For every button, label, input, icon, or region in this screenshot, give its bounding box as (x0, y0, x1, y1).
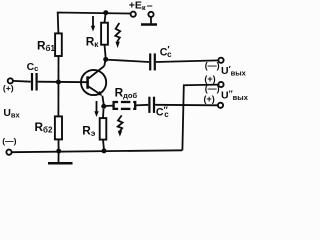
resistor Rб1 (55, 33, 62, 56)
svg-text:Uвх: Uвх (3, 108, 20, 119)
wire common to U'вых + (182, 85, 218, 151)
svg-text:(+): (+) (204, 94, 215, 104)
wire Rэ bottom lead (102, 140, 105, 149)
junction dot emitter node (101, 104, 106, 109)
svg-text:+Eк–: +Eк– (129, 0, 153, 12)
terminal input (+) (8, 78, 13, 83)
wire emitter node to Rдоб (104, 105, 114, 107)
terminal U''вых + (218, 103, 223, 108)
capacitor Cс (32, 73, 37, 91)
svg-text:C″с: C″с (156, 105, 169, 119)
junction dot Rб2 bottom (56, 149, 61, 154)
svg-text:(—): (—) (205, 61, 220, 71)
current arrow Iэ (94, 101, 98, 117)
junction dot collector node (103, 57, 108, 62)
junction dot supply node (103, 10, 108, 15)
current arrow Iк (91, 16, 95, 32)
svg-text:Rэ: Rэ (82, 123, 96, 138)
wire bottom rail (12, 150, 183, 152)
terminal U'вых + (218, 82, 223, 87)
signal zigzag arrow emitter (118, 115, 123, 136)
wire ground stub bottom (58, 152, 60, 163)
junction dot Rэ bottom (102, 148, 107, 153)
junction dot base node (56, 80, 61, 85)
ground (supply) (141, 23, 157, 26)
svg-text:C′с: C′с (160, 45, 172, 59)
svg-text:Rк: Rк (86, 35, 100, 50)
ground (bottom) (48, 162, 73, 165)
resistor Rб2 (55, 116, 62, 139)
wire emitter to node (102, 96, 103, 105)
wire input to Cс (13, 80, 31, 83)
svg-text:Rб2: Rб2 (35, 120, 53, 135)
resistor Rэ (100, 118, 107, 140)
wire Cс to base (38, 81, 87, 84)
terminal input (−) (6, 150, 11, 155)
wire −Eк to ground (150, 17, 152, 23)
capacitor C'c (150, 53, 155, 70)
svg-text:U′вых: U′вых (221, 64, 247, 78)
wire Rк bottom lead (105, 45, 106, 57)
wire Rб1-Rб2 divider (57, 56, 59, 116)
svg-text:Cс: Cс (27, 62, 39, 73)
wire collector node to C'c (106, 60, 149, 62)
wire C'c to U'вых (156, 60, 218, 62)
resistor Rдоб (dashed) (114, 102, 136, 109)
wire collector to node (104, 60, 105, 66)
capacitor C''c (149, 97, 154, 113)
svg-text:(+): (+) (3, 83, 14, 93)
terminal +Eк (131, 12, 136, 17)
wire Rб2 to bottom rail (58, 139, 60, 151)
svg-text:Rдоб: Rдоб (115, 86, 138, 101)
wire top supply rail (58, 13, 131, 34)
wire Rдоб to C''c (135, 104, 148, 107)
signal zigzag arrow collector (115, 23, 120, 48)
terminal −Eк (148, 12, 153, 17)
resistor Rк (101, 23, 108, 45)
svg-text:(+): (+) (204, 74, 215, 84)
wire C''c to U''вых (155, 104, 218, 107)
svg-text:(—): (—) (2, 136, 16, 146)
wire Rк top lead (105, 13, 106, 23)
svg-text:Rб1: Rб1 (37, 38, 55, 53)
wire Rэ top lead (102, 109, 105, 118)
svg-text:U″вых: U″вых (221, 88, 249, 102)
transistor VT1 (81, 66, 106, 96)
terminal U'вых − (218, 58, 223, 63)
